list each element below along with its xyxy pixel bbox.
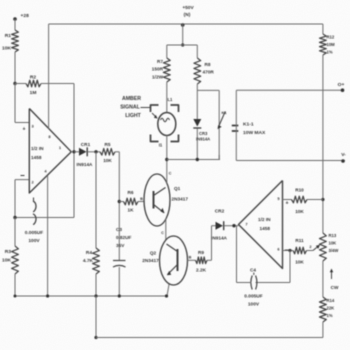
wire -input stub xyxy=(15,179,29,181)
wire R5 to corner xyxy=(115,151,119,153)
wire CR3 to collector line xyxy=(196,129,198,160)
wire V+ top rail xyxy=(49,23,323,25)
wire terminal to R1 xyxy=(14,19,16,30)
box K1-1 top edge to O+ terminal xyxy=(236,89,342,91)
wire C1 horizontal net xyxy=(15,217,74,219)
node lower rail left xyxy=(94,336,97,339)
diode CR1 xyxy=(79,148,87,156)
node U1b output xyxy=(232,224,235,227)
relay coil K1 arrow xyxy=(218,112,225,128)
wire coil to collector node line xyxy=(218,155,220,160)
capacitor C3 xyxy=(113,260,126,262)
resistor R10 xyxy=(292,196,308,203)
resistor R11 xyxy=(293,247,307,254)
terminal V- xyxy=(341,159,345,163)
wire Q2 emitter to ground rail xyxy=(167,284,169,296)
pot direction arrow CW xyxy=(331,271,333,280)
wire pin 4 V- to ground rail xyxy=(47,176,49,297)
wire CR1 to R5 xyxy=(88,151,101,153)
wire tee horizontal xyxy=(167,44,198,46)
wire C4 bottom left segment xyxy=(237,282,252,284)
node pin4 ground xyxy=(46,294,49,297)
box K1-1 left edge xyxy=(235,90,237,160)
node C4 tap xyxy=(288,249,291,252)
resistor R3 xyxy=(12,246,19,274)
wire R2 to feedback corner xyxy=(41,83,74,85)
wire CR2 cathode to output node xyxy=(224,225,239,227)
wire -input down to node B xyxy=(14,180,16,218)
wire node A to R2 xyxy=(15,83,26,85)
wire R8 to CR3 xyxy=(196,84,198,119)
resistor R9 xyxy=(196,257,208,264)
wire +50V stub down xyxy=(182,24,184,45)
wire R9 to corner xyxy=(207,259,212,261)
transistor Q1 2N3417 xyxy=(144,174,170,226)
wire node B to R3 xyxy=(14,218,16,247)
wire tee to R8 xyxy=(196,45,198,58)
box K1-1 bottom edge to V- terminal xyxy=(236,160,345,162)
wire R6 to Q1 base xyxy=(138,201,144,203)
node A junction R1/R2/op-amp xyxy=(13,82,16,85)
node R6 tap xyxy=(118,200,121,203)
node lamp feed tee xyxy=(181,43,184,46)
capacitor C1 xyxy=(33,201,36,212)
terminal +28 input xyxy=(13,17,17,21)
resistor R1 xyxy=(12,30,19,52)
resistor R8 xyxy=(194,58,201,84)
wire -input U1b to R11 xyxy=(283,250,294,252)
wire C4 tap down xyxy=(289,251,291,283)
wire right rail below pot xyxy=(322,261,324,297)
wire R10 to right rail xyxy=(307,199,323,201)
node Q2 emitter ground xyxy=(165,294,168,297)
capacitor C4 xyxy=(251,276,252,290)
wire ground rail xyxy=(15,295,167,297)
wire pin 8 V+ to top rail xyxy=(48,24,50,129)
wire lamp to collector node xyxy=(166,136,168,160)
wire collector node line xyxy=(167,159,220,161)
resistor R12 xyxy=(320,34,327,55)
wire +input stub xyxy=(15,122,29,124)
transistor Q2 2N3417 xyxy=(160,236,188,285)
node CR1/R5/R4 junction xyxy=(94,150,97,153)
wire C3 to ground rail xyxy=(118,267,120,296)
wire Q1 collector up to lamp node xyxy=(166,160,168,184)
diode CR3 xyxy=(193,119,201,127)
wire Q2 base to R9 xyxy=(188,259,196,261)
leader line label to lamp xyxy=(141,107,151,109)
wire coil K1 vertical xyxy=(218,90,220,159)
wire node A down to +input xyxy=(14,84,16,123)
op-amp U1b 1/2 1458 xyxy=(239,181,283,269)
wire ground drop to lower rail xyxy=(95,296,97,338)
resistor R6 xyxy=(124,198,139,205)
wire +input U1b to R10 xyxy=(283,199,292,201)
pot wiper arrow xyxy=(313,246,319,251)
wire R3 to ground rail xyxy=(14,274,16,296)
wire right rail mid xyxy=(322,55,324,233)
resistor R2 feedback xyxy=(26,80,41,87)
resistor R7 xyxy=(163,58,170,82)
wire R5 net vertical down xyxy=(118,152,120,261)
lamp I1 dashed enclosure xyxy=(151,105,159,112)
wire R4 branch vertical xyxy=(95,152,97,248)
wire corner up to CR2 xyxy=(211,226,213,261)
wire R11 to wiper arrow xyxy=(307,250,314,252)
resistor R4 xyxy=(93,248,100,274)
node B junction C1/R3 xyxy=(13,216,16,219)
terminal O+ xyxy=(341,88,345,92)
node output U1a xyxy=(72,150,75,153)
terminal +50V xyxy=(181,23,185,27)
relay contact K1-1 bars xyxy=(232,125,239,127)
wire C4 bottom right segment xyxy=(256,282,291,284)
wire R4 to ground rail xyxy=(95,274,97,296)
minus mark U1b xyxy=(285,249,289,251)
lamp I1 bulb xyxy=(158,113,176,136)
wire Q1 emitter to Q2 collector xyxy=(165,219,167,241)
wire right rail to lower rail xyxy=(322,322,324,338)
node C3 ground xyxy=(118,294,121,297)
wire output node down to C1 net xyxy=(73,152,75,218)
wire right rail top xyxy=(322,24,324,34)
wire C4 loop up to output xyxy=(236,226,238,283)
node CR3 junction xyxy=(196,158,199,161)
resistor R14 xyxy=(320,297,327,322)
wire R1 to node A xyxy=(14,52,16,84)
arrow to bulb xyxy=(152,113,157,118)
op-amp U1a 1/2 1458 xyxy=(29,109,71,194)
wire lower rail xyxy=(96,337,323,339)
node R3 ground corner xyxy=(14,295,17,298)
diode CR2 xyxy=(216,222,224,230)
node R10 tap xyxy=(321,198,324,201)
node R4 ground xyxy=(94,294,97,297)
wire tee to R7 xyxy=(166,45,168,58)
wire CR2 anode xyxy=(212,225,216,227)
wire node to R6 xyxy=(119,201,123,203)
node lamp/Q1 collector xyxy=(165,158,168,161)
wire R8 tee to coil K1 xyxy=(197,89,219,91)
potentiometer R13 xyxy=(320,233,327,261)
wire feedback vertical to output node xyxy=(73,84,75,152)
wire R7 to lamp xyxy=(166,82,168,113)
minus mark -input xyxy=(21,175,25,177)
wire output to CR1 xyxy=(74,151,79,153)
resistor R5 xyxy=(100,149,115,156)
